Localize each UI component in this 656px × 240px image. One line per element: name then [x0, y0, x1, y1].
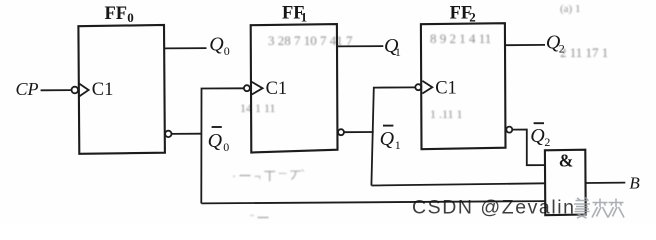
svg-text:&: &	[559, 151, 574, 171]
wire Q0 output	[164, 47, 206, 49]
FF1 clock inversion bubble	[244, 85, 250, 91]
svg-text:14 1 11: 14 1 11	[240, 101, 276, 115]
svg-text:Q: Q	[380, 128, 395, 150]
svg-text:0: 0	[127, 10, 134, 25]
svg-text:0: 0	[224, 44, 230, 58]
svg-text:¨ 一: ¨ 一	[250, 211, 269, 225]
wire Q2bar to AND gate input	[512, 130, 545, 166]
watermark	[412, 197, 624, 219]
FF2 clock inversion bubble	[415, 84, 421, 90]
wire B output of AND gate	[586, 182, 626, 184]
svg-text:1: 1	[301, 10, 308, 25]
node label Q0	[209, 34, 230, 58]
FF0 Q output inversion bubble	[165, 131, 171, 137]
svg-text:1: 1	[395, 138, 401, 152]
svg-text:CP: CP	[16, 79, 39, 99]
svg-text:CSDN @Zevalin: CSDN @Zevalin	[412, 197, 575, 219]
svg-text:8 9 2 1 4 11: 8 9 2 1 4 11	[430, 31, 491, 46]
flip-flop FF1 box	[251, 24, 338, 152]
wire bottom bus from Q0bar to AND gate input	[201, 201, 545, 203]
flip-flop FF0 box	[78, 25, 164, 154]
FF0 dynamic clock wedge	[79, 84, 88, 97]
wire CP input	[41, 89, 72, 91]
AND gate U1 box	[545, 150, 586, 216]
wire Q0bar from bubble to junction	[172, 133, 202, 135]
wire node Q0bar vertical riser to FF1 clock and bottom bus	[201, 88, 244, 203]
label FF1	[282, 4, 307, 25]
FF2 Q output inversion bubble	[506, 127, 512, 133]
svg-text:1: 1	[395, 45, 401, 59]
svg-text:Q: Q	[209, 34, 224, 56]
svg-text:Q: Q	[530, 125, 545, 147]
FF1 dynamic clock wedge	[252, 82, 263, 95]
svg-text:(a) 1: (a) 1	[560, 3, 580, 15]
wire Q1bar from bubble to junction	[344, 131, 374, 133]
svg-text:Q: Q	[208, 130, 223, 152]
svg-text:2: 2	[469, 10, 476, 25]
FF0 clock inversion bubble	[72, 87, 79, 94]
FF2 dynamic clock wedge	[422, 81, 432, 94]
svg-text:· 一 ¬ 丅 ˉ¨ 丆 ̀: · 一 ¬ 丅 ˉ¨ 丆 ̀	[232, 169, 305, 183]
svg-text:C1: C1	[435, 79, 457, 99]
label FF2	[450, 4, 476, 25]
node label Q1bar	[380, 126, 401, 153]
svg-text:2: 2	[544, 135, 550, 149]
flip-flop FF2 box	[421, 23, 506, 149]
FF1 Q output inversion bubble	[338, 129, 344, 135]
svg-text:C1: C1	[92, 80, 114, 100]
wire node Q1bar vertical riser to FF2 clock and bottom bus	[371, 87, 415, 185]
wire middle bus from Q1bar to AND gate input	[371, 183, 545, 185]
wire Q1 output	[337, 45, 383, 47]
label FF0	[105, 4, 134, 25]
svg-text:0: 0	[223, 140, 229, 154]
svg-text:FF: FF	[105, 4, 128, 24]
node label Q1	[384, 35, 401, 59]
svg-text:2 11 17 1: 2 11 17 1	[560, 45, 608, 60]
faint print bleed-through artifacts	[232, 3, 608, 225]
svg-text:C1: C1	[266, 79, 288, 99]
wire Q2 output	[505, 44, 545, 46]
svg-text:1 .11 1: 1 .11 1	[430, 107, 463, 121]
node label Q0bar	[208, 127, 230, 154]
svg-text:2: 2	[559, 42, 565, 56]
svg-text:B: B	[629, 173, 640, 192]
node label Q2	[546, 32, 565, 56]
node label Q2bar	[530, 123, 550, 149]
